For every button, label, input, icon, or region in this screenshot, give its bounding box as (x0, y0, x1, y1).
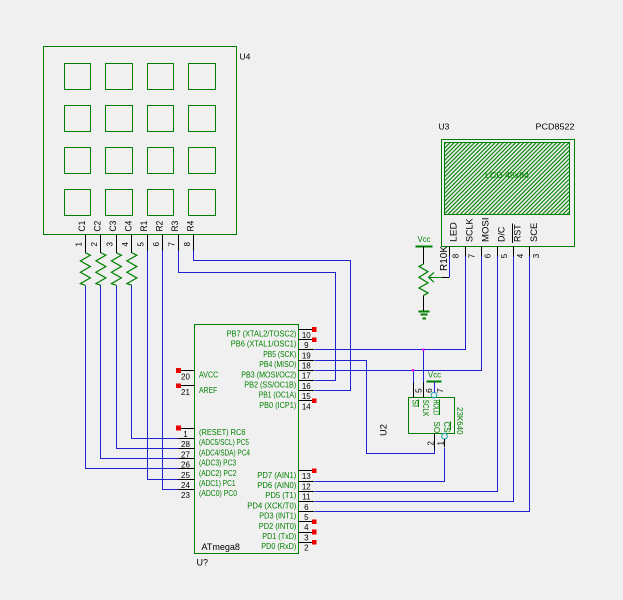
svg-text:8: 8 (183, 242, 192, 247)
wire keypad R2 to ATmega pin 23 (163, 251, 179, 490)
svg-text:Vcc: Vcc (418, 234, 432, 244)
svg-text:(RESET) RC6: (RESET) RC6 (199, 428, 246, 437)
svg-text:R1: R1 (139, 221, 150, 232)
wire U2 SCLK branch (423, 350, 425, 383)
svg-text:15: 15 (302, 392, 311, 401)
svg-text:LCD 48x84: LCD 48x84 (485, 170, 529, 180)
svg-text:17: 17 (302, 372, 311, 381)
svg-text:7: 7 (435, 388, 445, 393)
svg-text:28: 28 (181, 440, 190, 449)
ATmega8 pin 26 (ADC3) PC3 (179, 459, 237, 470)
svg-text:MOSI: MOSI (480, 217, 491, 242)
wire net RST: ATmega pin 6 to LCD RST (315, 257, 514, 502)
svg-text:21: 21 (181, 388, 190, 397)
ATmega8 pin 25 (ADC2) PC2 (179, 469, 237, 480)
wire net SCK: ATmega pin 19 to LCD SCLK (315, 257, 466, 350)
keypad U4 pin 5 (R1) (136, 221, 150, 251)
svg-text:7: 7 (468, 253, 477, 258)
ATmega8 name label (202, 542, 240, 552)
Vcc symbol (U2 HOLD) (426, 370, 441, 393)
U2 pin 6 SCLK (421, 382, 434, 417)
keypad U4 pin 1 (C1) (74, 221, 88, 253)
ATmega8 pin 11 PD5 (T1) (265, 491, 314, 501)
ATmega8 pin 20 AVCC (176, 368, 218, 381)
U2 reference label U2 (379, 424, 389, 436)
ATmega8 pin 6 PD4 (XCK/T0) (247, 501, 314, 511)
svg-text:RST: RST (513, 224, 524, 242)
svg-text:PB6 (XTAL1/OSC1): PB6 (XTAL1/OSC1) (231, 340, 297, 349)
U2 pin 5 SI (410, 382, 423, 407)
resistor on keypad column C2 (96, 253, 106, 285)
svg-text:11: 11 (302, 493, 311, 502)
svg-text:9: 9 (304, 341, 309, 350)
svg-text:SI: SI (410, 400, 419, 408)
LCD U3 pin 5 D/C (497, 226, 509, 258)
ATmega8 pin 21 AREF (176, 384, 217, 397)
svg-text:C3: C3 (108, 221, 119, 232)
svg-text:PB0 (ICP1): PB0 (ICP1) (259, 401, 296, 410)
U2 pin 2 SO (427, 422, 441, 450)
svg-text:(ADC4/SDA) PC4: (ADC4/SDA) PC4 (199, 448, 250, 457)
ATmega8 U? body (195, 325, 299, 554)
junction on MOSI net at U2 SI (412, 369, 414, 371)
LCD U3 display area (445, 143, 570, 215)
resistor on keypad column C3 (111, 253, 121, 285)
svg-text:CS: CS (442, 422, 451, 433)
svg-text:23K640: 23K640 (455, 407, 464, 435)
svg-text:2: 2 (304, 544, 309, 553)
svg-text:SO: SO (432, 422, 441, 434)
svg-text:HOLD: HOLD (431, 400, 440, 416)
svg-text:6: 6 (304, 503, 309, 512)
svg-text:PD5 (T1): PD5 (T1) (265, 491, 296, 500)
svg-text:AREF: AREF (199, 386, 217, 395)
ATmega8 pin 12 PD6 (AIN0) (257, 481, 314, 491)
ATmega8 pin 17 PB3 (MOSI/OC2) (241, 370, 314, 380)
ATmega8 pin 14 PB0 (ICP1) (259, 399, 316, 412)
U2 pin 1 CS (437, 422, 451, 448)
svg-text:24: 24 (181, 481, 190, 490)
ATmega8 pin 16 PB2 (SS/OC1B) (244, 381, 314, 391)
svg-text:14: 14 (302, 402, 311, 411)
svg-text:SCE: SCE (529, 223, 540, 242)
svg-text:R3: R3 (170, 221, 181, 232)
LCD U3 pin 4 RST (513, 224, 525, 259)
keypad U4 body (44, 47, 237, 235)
wire keypad R3 to ATmega pin 16 (179, 251, 336, 381)
svg-text:3: 3 (105, 242, 114, 247)
ATmega8 pin 28 (ADC5/SCL) PC5 (179, 438, 250, 449)
svg-text:AVCC: AVCC (199, 371, 218, 380)
svg-text:23: 23 (181, 491, 190, 500)
ATmega8 pin 23 (ADC0) PC0 (179, 489, 238, 500)
svg-text:16: 16 (302, 382, 311, 391)
ATmega8 pin 13 PD7 (AIN1) (257, 469, 316, 482)
wire keypad R4 to ATmega pin 15 (194, 251, 351, 391)
svg-text:PB1 (OC1A): PB1 (OC1A) (259, 391, 297, 400)
ATmega8 reference label U? (197, 558, 209, 568)
wire keypad C2 to ATmega pin 26 (101, 286, 179, 459)
svg-text:PD4 (XCK/T0): PD4 (XCK/T0) (247, 501, 296, 510)
svg-text:PB3 (MOSI/OC2): PB3 (MOSI/OC2) (241, 370, 296, 379)
ATmega8 pin 27 (ADC4/SDA) PC4 (179, 448, 251, 459)
wire keypad C1 to ATmega pin 25 (86, 286, 179, 469)
ATmega8 pin 10 PB7 (XTAL2/TOSC2) (227, 327, 317, 340)
svg-text:5: 5 (304, 513, 309, 522)
svg-text:(ADC5/SCL) PC5: (ADC5/SCL) PC5 (199, 438, 249, 447)
ATmega8 pin 9 PB6 (XTAL1/OSC1) (231, 337, 317, 350)
svg-text:1: 1 (437, 441, 446, 446)
wire keypad C4 to ATmega pin 28 (132, 286, 179, 439)
svg-text:R10K: R10K (439, 246, 450, 271)
svg-text:4: 4 (516, 253, 525, 258)
LCD U3 display text LCD 48x84 (485, 170, 529, 180)
svg-text:2: 2 (427, 441, 436, 446)
svg-text:C4: C4 (123, 221, 134, 232)
svg-text:D/C: D/C (497, 226, 508, 242)
keypad U4 pin 8 (R4) (183, 221, 197, 251)
svg-text:13: 13 (302, 472, 311, 481)
wire net SCE: ATmega pin 5 to LCD SCE (315, 257, 530, 512)
ATmega8 pin 1 (RESET) RC6 (176, 426, 246, 439)
svg-text:SCLK: SCLK (421, 400, 430, 418)
svg-text:10: 10 (302, 331, 311, 340)
LCD U3 part label PCD8522 (536, 121, 575, 131)
wire U2 SI branch (413, 371, 415, 383)
svg-text:3: 3 (304, 533, 309, 542)
svg-text:(ADC2) PC2: (ADC2) PC2 (199, 469, 237, 478)
ATmega8 pin 24 (ADC1) PC1 (179, 479, 236, 490)
svg-text:7: 7 (167, 242, 176, 247)
LCD U3 reference label U3 (439, 121, 450, 131)
keypad U4 pin 6 (R2) (152, 221, 166, 251)
ATmega8 pin 19 PB5 (SCK) (263, 350, 314, 361)
svg-text:U3: U3 (439, 121, 450, 131)
ground (R10K) (418, 295, 429, 318)
wire keypad C3 to ATmega pin 27 (117, 286, 179, 449)
svg-text:PB5 (SCK): PB5 (SCK) (263, 350, 296, 359)
svg-text:4: 4 (121, 242, 130, 247)
svg-text:5: 5 (500, 253, 509, 258)
LCD U3 pin 3 SCE (529, 223, 541, 259)
ATmega8 pin 18 PB4 (MISO) (259, 360, 314, 370)
svg-text:U4: U4 (240, 52, 251, 62)
wire net CS: ATmega pin 12 to U2 CS (315, 448, 445, 482)
svg-text:5: 5 (414, 388, 424, 393)
svg-text:3: 3 (532, 253, 541, 258)
ATmega8 pin 4 PD2 (INT0) (259, 520, 317, 533)
wire net MOSI: ATmega pin 17 to LCD MOSI (315, 257, 482, 371)
svg-text:U2: U2 (379, 424, 389, 436)
svg-text:1: 1 (183, 430, 188, 439)
svg-text:R4: R4 (185, 221, 196, 232)
svg-text:(ADC3) PC3: (ADC3) PC3 (199, 459, 237, 468)
potentiometer R10K (419, 246, 450, 296)
svg-text:U?: U? (197, 558, 209, 568)
ATmega8 pin 3 PD1 (TxD) (262, 530, 316, 543)
LCD U3 pin 7 SCLK (464, 218, 476, 259)
svg-text:5: 5 (136, 242, 145, 247)
resistor on keypad column C4 (127, 253, 137, 285)
LCD U3 pin 6 MOSI (480, 217, 492, 258)
U2 pin 7 HOLD (431, 388, 445, 415)
svg-text:6: 6 (152, 242, 161, 247)
svg-text:ATmega8: ATmega8 (202, 542, 240, 552)
svg-text:8: 8 (452, 253, 461, 258)
svg-text:PB2 (SS/OC1B): PB2 (SS/OC1B) (244, 381, 296, 390)
svg-text:PD3 (INT1): PD3 (INT1) (259, 512, 296, 521)
svg-text:SCLK: SCLK (464, 218, 475, 242)
Vcc symbol (R10K) (415, 234, 432, 264)
U2 body (409, 398, 455, 434)
svg-text:25: 25 (181, 471, 190, 480)
svg-text:PB7 (XTAL2/TOSC2): PB7 (XTAL2/TOSC2) (227, 330, 297, 339)
wire net D/C: ATmega pin 11 to LCD D/C (315, 257, 498, 492)
wire net MISO: ATmega pin 18 to U2 SO (315, 361, 435, 454)
svg-text:LED: LED (448, 222, 459, 242)
ATmega8 pin 2 PD0 (RxD) (261, 540, 316, 553)
keypad U4 pin 2 (C2) (90, 221, 104, 253)
keypad U4 reference label U4 (240, 52, 251, 62)
svg-text:PD1 (TxD): PD1 (TxD) (262, 532, 296, 541)
svg-text:PD2 (INT0): PD2 (INT0) (259, 522, 297, 531)
svg-text:C2: C2 (92, 221, 103, 232)
svg-text:6: 6 (484, 253, 493, 258)
wire keypad R1 to ATmega pin 24 (148, 251, 179, 480)
svg-text:20: 20 (181, 373, 190, 382)
resistor on keypad column C1 (80, 253, 90, 285)
ATmega8 pin 5 PD3 (INT1) (259, 512, 314, 523)
LCD U3 body (442, 140, 575, 247)
svg-text:R2: R2 (154, 221, 165, 232)
svg-text:(ADC0) PC0: (ADC0) PC0 (199, 489, 237, 498)
U2 part label 23K640 (455, 407, 464, 435)
svg-text:19: 19 (302, 351, 311, 360)
keypad U4 pin 7 (R3) (167, 221, 181, 251)
svg-text:18: 18 (302, 362, 311, 371)
svg-text:C1: C1 (77, 221, 88, 232)
keypad U4 pin 3 (C3) (105, 221, 119, 253)
wire LED to R10K wiper (449, 257, 451, 278)
svg-text:PCD8522: PCD8522 (536, 121, 575, 131)
svg-text:12: 12 (302, 482, 311, 491)
svg-text:(ADC1) PC1: (ADC1) PC1 (199, 479, 236, 488)
ATmega8 pin 15 PB1 (OC1A) (259, 391, 314, 402)
junction on SCK net at U2 SCLK (422, 349, 424, 351)
keypad U4 pin 4 (C4) (121, 221, 134, 253)
svg-text:2: 2 (90, 242, 99, 247)
svg-text:PD0 (RxD): PD0 (RxD) (261, 542, 296, 551)
svg-text:PB4 (MISO): PB4 (MISO) (259, 360, 296, 369)
svg-text:PD6 (AIN0): PD6 (AIN0) (257, 481, 296, 490)
svg-text:4: 4 (304, 523, 309, 532)
svg-text:PD7 (AIN1): PD7 (AIN1) (257, 471, 296, 480)
LCD U3 pin 8 LED (448, 222, 460, 258)
svg-text:1: 1 (74, 242, 83, 247)
